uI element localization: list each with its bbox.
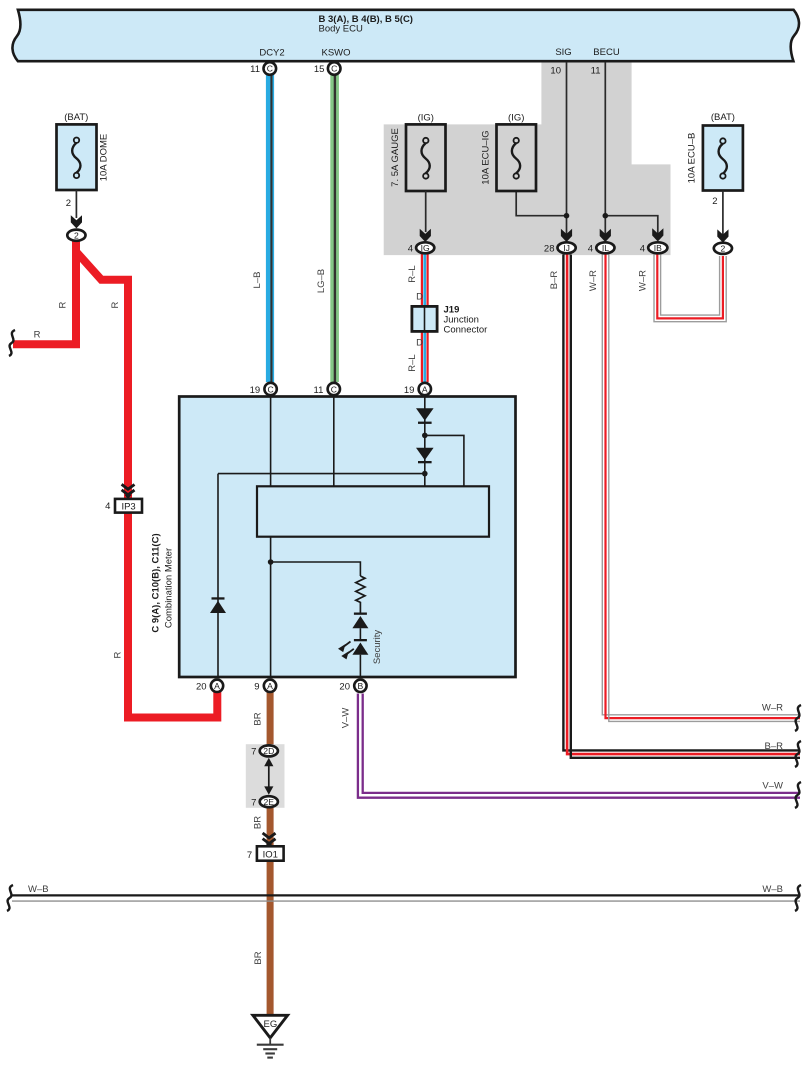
junction dot on SIG line xyxy=(564,213,570,219)
connector pin 7 2E xyxy=(251,796,278,808)
internal wire from 19(C) xyxy=(270,397,272,487)
internal branch to inner block right xyxy=(425,435,464,486)
connector 4 IP3 chevrons xyxy=(122,484,135,499)
svg-text:R–L: R–L xyxy=(407,354,418,371)
arrow into pin 4 IL xyxy=(600,229,611,242)
fuse 10A ECU-B xyxy=(687,112,743,237)
svg-text:2: 2 xyxy=(66,198,71,209)
internal wire to pin 20(A) xyxy=(217,474,219,678)
svg-text:LG–B: LG–B xyxy=(316,269,327,293)
svg-text:10: 10 xyxy=(550,66,561,77)
svg-text:20: 20 xyxy=(196,682,207,693)
svg-text:A: A xyxy=(214,681,220,691)
svg-text:IG: IG xyxy=(421,243,430,253)
svg-text:A: A xyxy=(267,681,273,691)
wire from ECU-IG fuse to SIG junction xyxy=(516,191,566,216)
junction connector J19 xyxy=(412,304,487,335)
svg-text:4: 4 xyxy=(588,244,593,255)
svg-text:R–L: R–L xyxy=(407,265,418,282)
break squiggle right W-R xyxy=(795,705,801,731)
svg-text:V–W: V–W xyxy=(341,708,352,729)
wire branch from BECU junction to pin 4 IB xyxy=(605,216,658,235)
meter pin 11(C) xyxy=(314,383,340,396)
combination meter box xyxy=(151,397,516,678)
junction dot B xyxy=(422,471,428,477)
wire R thick red from connector 2 to left edge and to IP3 and meter 20(A) xyxy=(13,240,217,718)
svg-text:A: A xyxy=(422,384,428,394)
connector block 2D-2E xyxy=(246,744,285,808)
svg-text:W–B: W–B xyxy=(28,884,49,895)
Body ECU banner xyxy=(12,10,799,61)
arrow into pin 4 IB xyxy=(652,228,663,241)
grey highlight region xyxy=(384,62,671,255)
svg-text:10A ECU–B: 10A ECU–B xyxy=(687,133,698,184)
svg-text:R: R xyxy=(110,301,121,308)
internal branch to security lamp xyxy=(271,562,361,576)
svg-text:B: B xyxy=(358,681,364,691)
connector pin 7 2D xyxy=(251,745,278,757)
svg-text:Body ECU: Body ECU xyxy=(319,24,363,35)
svg-text:2: 2 xyxy=(712,196,717,207)
connector pin 4 IG xyxy=(408,242,435,254)
svg-text:W–R: W–R xyxy=(762,703,783,714)
wire BECU from Body ECU to pin 4 IL xyxy=(591,62,606,236)
svg-text:19: 19 xyxy=(404,385,415,396)
internal wire from 19(A) xyxy=(424,397,426,487)
internal wire from inner block to pin 9(A) xyxy=(270,537,272,678)
connector 7 IO1 chevrons xyxy=(263,833,276,847)
connector pin 28 IJ xyxy=(544,242,576,254)
svg-text:4: 4 xyxy=(640,244,645,255)
wire W-B horizontal across page xyxy=(12,884,800,901)
svg-text:Security: Security xyxy=(372,630,383,665)
meter pin 20(A) xyxy=(196,680,223,693)
meter inner block xyxy=(257,486,489,536)
svg-text:B–R: B–R xyxy=(765,741,784,752)
junction dot A xyxy=(422,433,428,439)
ground EG xyxy=(253,1015,288,1057)
wire W-R from pin 4 IL to right edge xyxy=(588,255,800,722)
arrow into pin 4 IG xyxy=(420,229,431,242)
meter pin 9(A) xyxy=(254,680,276,693)
svg-text:2: 2 xyxy=(74,231,79,241)
svg-text:L–B: L–B xyxy=(252,272,263,289)
svg-text:IP3: IP3 xyxy=(121,501,135,512)
svg-text:DCY2: DCY2 xyxy=(259,48,284,59)
wire R-L from fuse 7.5A GAUGE pin 4 IG to J19 and meter 19(A) xyxy=(407,254,429,382)
svg-text:15: 15 xyxy=(314,64,325,75)
svg-text:4: 4 xyxy=(105,501,110,512)
svg-text:C: C xyxy=(331,384,337,394)
svg-text:BECU: BECU xyxy=(593,47,620,58)
svg-text:W–R: W–R xyxy=(588,270,599,291)
wire L-B from Body ECU DCY2 to meter pin 19(C) xyxy=(252,75,274,382)
svg-text:C: C xyxy=(331,64,337,74)
svg-text:B–R: B–R xyxy=(549,271,560,290)
fuse 10A ECU-IG xyxy=(481,113,537,191)
svg-text:C 9(A), C10(B), C11(C): C 9(A), C10(B), C11(C) xyxy=(151,533,162,632)
wire V-W from meter pin 20(B) to right edge xyxy=(341,694,801,798)
svg-text:(BAT): (BAT) xyxy=(711,112,735,123)
connector pin 4 IB xyxy=(640,242,668,254)
fuse 7.5A GAUGE xyxy=(390,113,446,232)
break squiggle right W-B xyxy=(795,885,801,911)
svg-text:11: 11 xyxy=(250,64,260,75)
svg-text:IJ: IJ xyxy=(563,243,570,253)
svg-text:EG: EG xyxy=(264,1019,278,1030)
connector 2 below DOME fuse xyxy=(67,230,85,241)
svg-text:7: 7 xyxy=(251,797,256,808)
svg-text:10A DOME: 10A DOME xyxy=(99,134,110,182)
svg-text:BR: BR xyxy=(253,816,264,829)
svg-text:KSWO: KSWO xyxy=(321,48,350,59)
svg-text:Connector: Connector xyxy=(444,324,488,335)
svg-text:20: 20 xyxy=(339,682,350,693)
meter pin 20(B) xyxy=(339,680,366,693)
break squiggle left W-B xyxy=(7,885,13,911)
svg-text:R: R xyxy=(34,330,41,341)
svg-text:7: 7 xyxy=(247,850,252,861)
svg-text:2: 2 xyxy=(721,244,726,254)
connector pin 11 (C) of Body ECU xyxy=(250,62,276,75)
svg-text:IL: IL xyxy=(602,243,609,253)
connector pin 4 IL xyxy=(588,242,615,254)
svg-text:D: D xyxy=(416,292,423,303)
svg-text:(IG): (IG) xyxy=(508,113,524,124)
svg-text:BR: BR xyxy=(253,951,264,964)
resistor in security branch xyxy=(356,576,365,613)
internal wire from 11(C) xyxy=(333,397,335,487)
diode D1 (down) below pin 19(A) xyxy=(416,408,434,424)
LED security indicator xyxy=(338,630,383,665)
connector 7 IO1 box xyxy=(247,846,284,861)
svg-text:2E: 2E xyxy=(264,797,275,807)
svg-text:4: 4 xyxy=(408,244,413,255)
junction dot on BECU line xyxy=(603,213,609,219)
meter pin 19(C) xyxy=(250,383,277,396)
arrow into connector 2 (right) xyxy=(717,229,728,242)
wire BR from meter pin 9(A) to ground EG xyxy=(253,692,274,1016)
svg-text:V–W: V–W xyxy=(762,780,783,791)
svg-text:BR: BR xyxy=(253,712,264,725)
arrow into connector 2 (left) xyxy=(71,215,82,228)
arrow into pin 28 IJ xyxy=(561,229,572,242)
diode D2 (down) xyxy=(416,448,434,464)
svg-text:19: 19 xyxy=(250,385,261,396)
svg-text:9: 9 xyxy=(254,682,259,693)
wire B-R from pin 28 IJ to right edge xyxy=(549,255,800,758)
fuse 10A DOME xyxy=(57,112,110,218)
svg-text:10A ECU–IG: 10A ECU–IG xyxy=(481,130,492,184)
svg-text:(BAT): (BAT) xyxy=(64,112,88,123)
svg-text:IO1: IO1 xyxy=(263,849,278,860)
connector 2 below ECU-B fuse xyxy=(714,243,732,254)
svg-text:IB: IB xyxy=(654,243,662,253)
wire W-R loop from pin 4 IB to ECU-B fuse pin 2 xyxy=(638,255,727,322)
junction dot C xyxy=(268,559,274,565)
internal horizontal rail xyxy=(218,473,425,475)
wire SIG from Body ECU to pin 28 IJ xyxy=(550,62,566,236)
svg-text:D: D xyxy=(416,338,423,349)
svg-text:2D: 2D xyxy=(263,746,274,756)
connector 4 IP3 box xyxy=(105,499,142,513)
double arrow between 2D and 2E xyxy=(264,758,273,795)
svg-text:7: 7 xyxy=(251,747,256,758)
connector pin 15 (C) of Body ECU xyxy=(314,62,341,75)
svg-text:R: R xyxy=(113,651,124,658)
break squiggle right V-W xyxy=(795,782,801,808)
meter pin 19(A) xyxy=(404,383,431,396)
diode D3 (up) on 20(A) line xyxy=(210,597,226,613)
svg-text:SIG: SIG xyxy=(555,47,571,58)
wire LG-B from Body ECU KSWO to meter pin 11(C) xyxy=(316,75,339,382)
svg-text:R: R xyxy=(58,301,69,308)
break squiggle right B-R xyxy=(795,741,801,767)
svg-text:11: 11 xyxy=(314,385,324,396)
svg-text:28: 28 xyxy=(544,244,555,255)
svg-text:W–B: W–B xyxy=(762,884,783,895)
svg-text:C: C xyxy=(267,64,273,74)
break squiggle left red wire xyxy=(9,330,15,356)
svg-text:(IG): (IG) xyxy=(418,113,434,124)
svg-text:11: 11 xyxy=(591,66,601,77)
wire between diodes xyxy=(359,628,361,639)
svg-text:J19: J19 xyxy=(444,304,460,315)
svg-text:C: C xyxy=(267,384,273,394)
svg-text:7. 5A GAUGE: 7. 5A GAUGE xyxy=(390,128,401,187)
diode D4 (up) in security branch xyxy=(352,613,368,629)
svg-text:W–R: W–R xyxy=(638,270,649,291)
wire from LED to pin 20(B) xyxy=(359,655,361,678)
svg-text:Combination Meter: Combination Meter xyxy=(164,548,175,628)
